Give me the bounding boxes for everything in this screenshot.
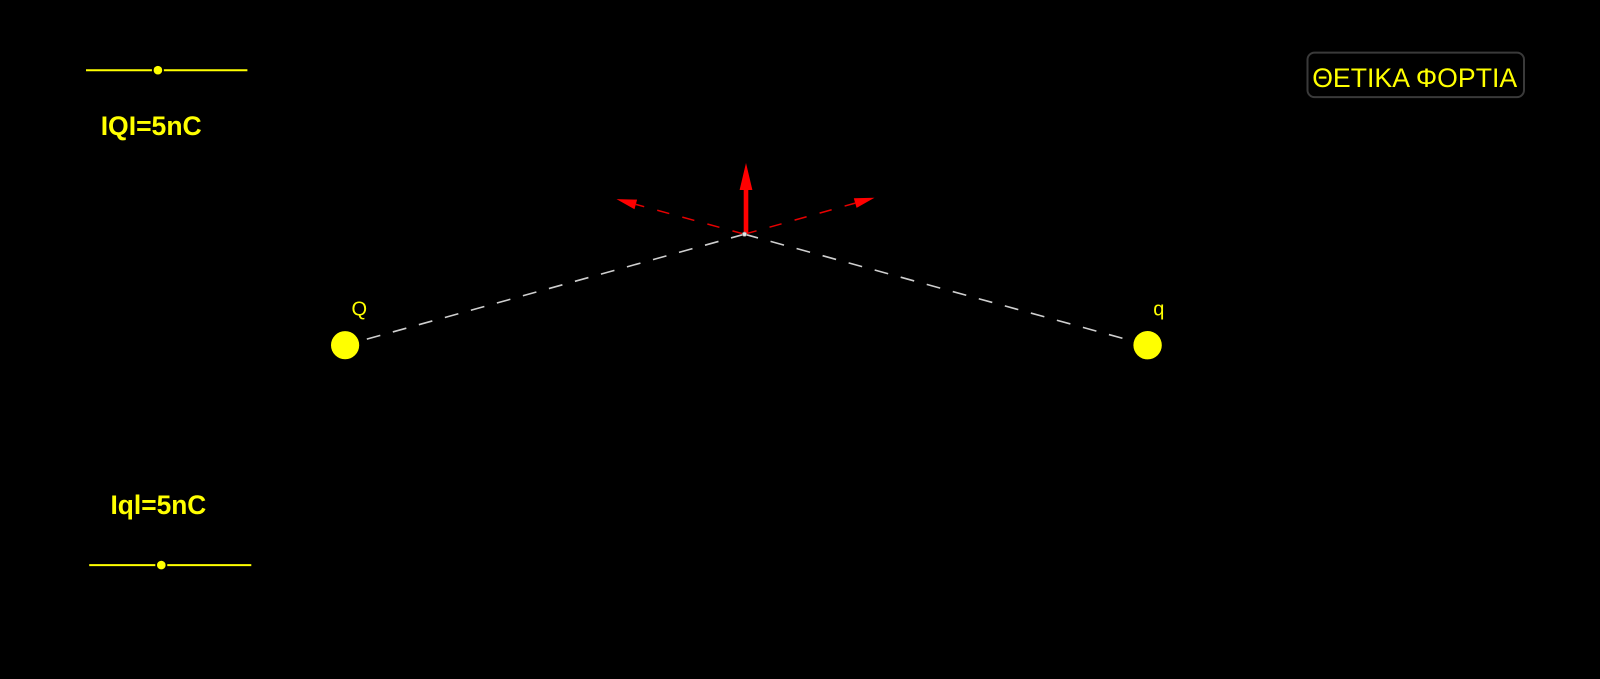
svg-text:ΘΕΤΙΚΑ ΦΟΡΤΙΑ: ΘΕΤΙΚΑ ΦΟΡΤΙΑ (1312, 63, 1517, 93)
svg-text:IQI=5nC: IQI=5nC (101, 111, 202, 141)
svg-text:q: q (1153, 299, 1164, 321)
svg-text:Q: Q (352, 298, 368, 320)
svg-text:Iql=5nC: Iql=5nC (111, 490, 207, 520)
